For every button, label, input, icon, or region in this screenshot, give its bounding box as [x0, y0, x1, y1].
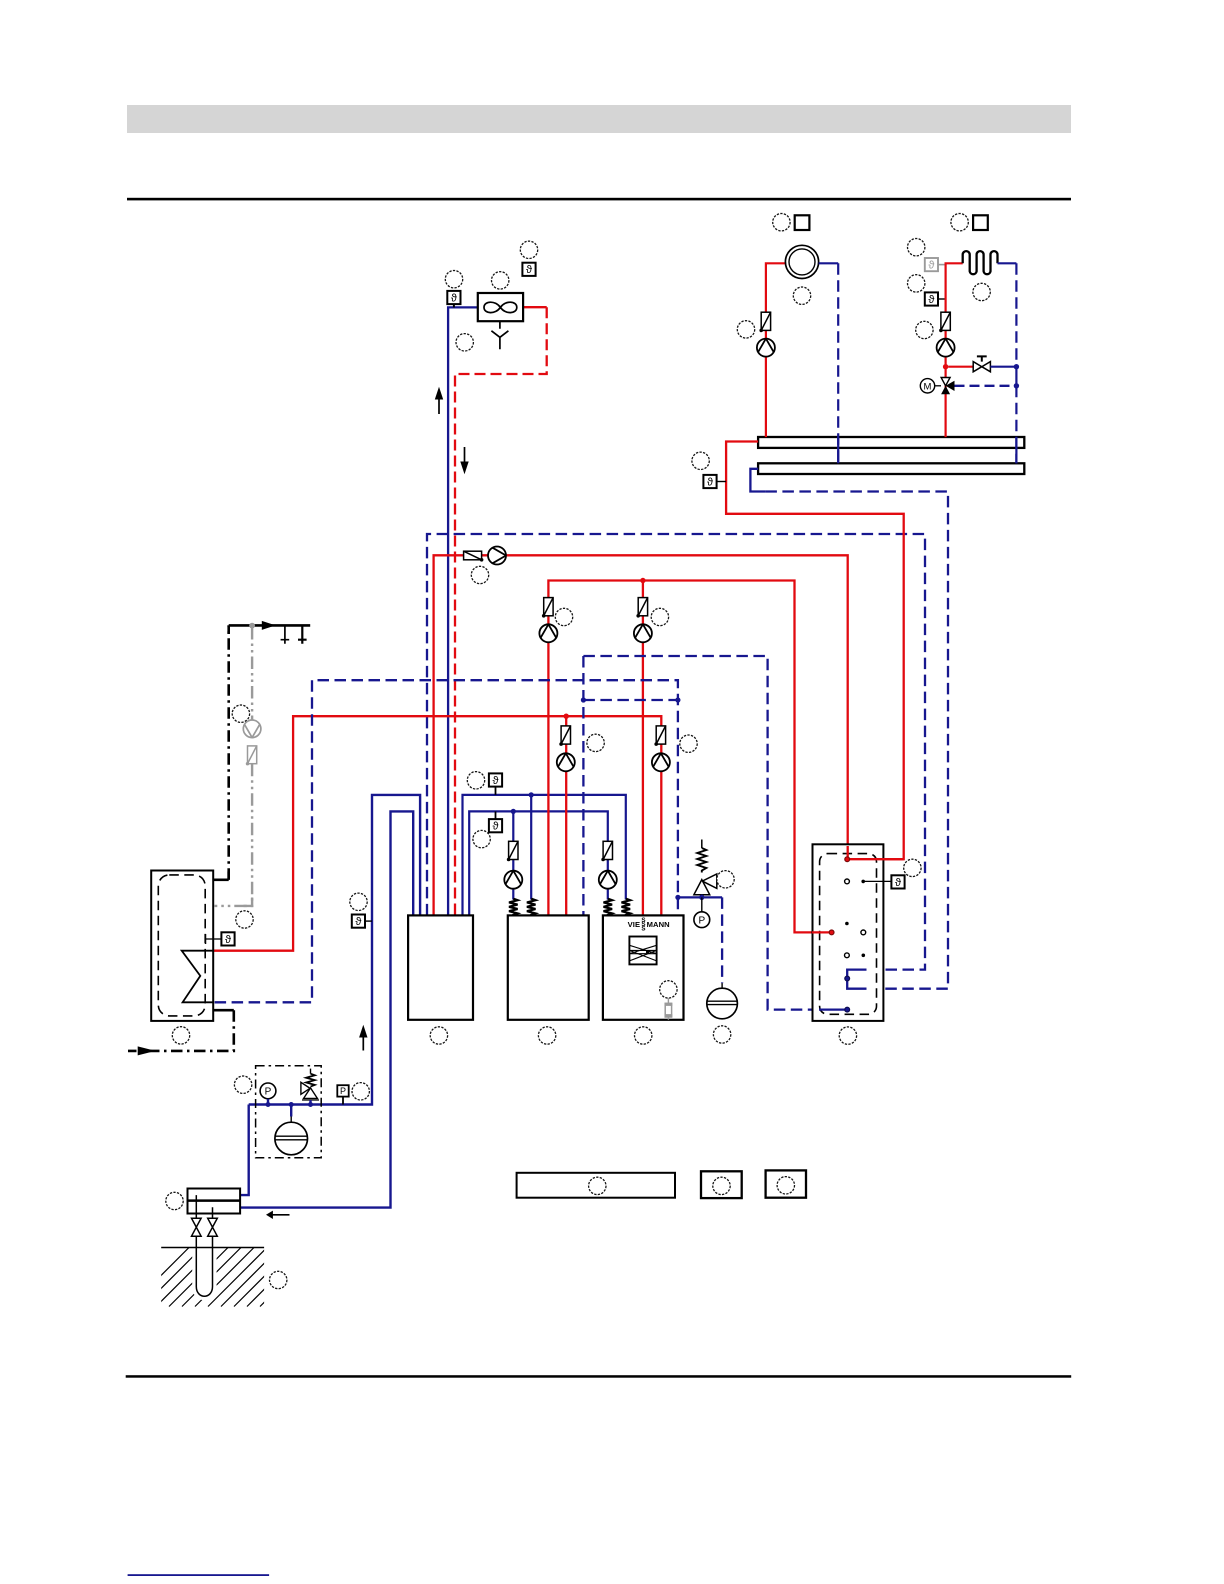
wire: hot water line from tank (black) — [213, 878, 229, 881]
label circle supply branch 2 — [555, 608, 572, 625]
label circle brine bus upper — [467, 772, 484, 789]
safety valve brine — [301, 1069, 319, 1105]
node: junction bypass circuit 2 — [943, 364, 948, 369]
motor drive mixing valve — [920, 379, 941, 393]
wire: mixing valve blue dashed stub — [955, 385, 1017, 387]
svg-text:S: S — [641, 926, 645, 933]
remote control box 1 — [701, 1171, 742, 1198]
heating circuit 2 return stub (blue) — [998, 262, 1017, 264]
wire: circulation line lower (gray) — [214, 764, 252, 906]
node: junction DHW heating supply — [564, 714, 569, 719]
label circle DHW tank — [172, 1027, 189, 1044]
wire: bypass red stub — [948, 366, 973, 368]
sensor theta brine inlet heat pump 1 — [352, 915, 372, 929]
label circle expansion vessel heating — [713, 1026, 730, 1043]
check valve circulation gray — [246, 746, 257, 766]
wire: return branch into heat pump 2 (blue dashed) — [582, 656, 584, 915]
wire: DHW heating supply branch to heat pump 2 — [565, 716, 567, 915]
heating circuit 2 floor heating coil — [963, 251, 998, 274]
electric heater fuse element heat pump 3 — [665, 998, 673, 1020]
label circle DHW branch 3 — [680, 735, 697, 752]
label circle valve circuit 1 — [737, 321, 754, 338]
gate valve bypass — [973, 356, 990, 371]
label circle left of fan — [445, 271, 462, 288]
membrane expansion vessel brine — [275, 1122, 308, 1155]
wire: hot water riser dash-dot — [227, 625, 230, 879]
port buffer top supply — [845, 857, 850, 862]
ground probe U pipe — [196, 1236, 212, 1296]
top rule — [127, 198, 1071, 201]
label circle DHW branch 2 — [587, 734, 604, 751]
wire: bypass blue stub — [990, 366, 1016, 368]
svg-text:MANN: MANN — [647, 920, 670, 929]
heating circuit 2 return dashed to manifold — [1015, 263, 1017, 463]
flexible connection spring brine heat pump 2 right — [527, 899, 536, 916]
throttle valve DHW branch heat pump 2 — [559, 726, 570, 746]
wire: DHW heating supply line to coil (red) — [214, 716, 661, 951]
DHW tank heating coil — [182, 951, 214, 1003]
membrane expansion vessel heating — [707, 983, 738, 1019]
remote control box 2 — [766, 1170, 806, 1197]
wire: buffer return port solid branches (blue) — [847, 970, 866, 989]
wire: heat pump 1 to outdoor unit cold line (blue solid) — [448, 307, 478, 915]
label circle above fan — [492, 272, 509, 289]
arrow flow up on brine supply riser — [359, 1025, 367, 1051]
port buffer sensor level — [845, 879, 850, 884]
ground manifold block — [188, 1189, 241, 1219]
node: junction safety valve brine — [308, 1102, 313, 1107]
node: junction at heat pump 3 return — [675, 895, 680, 900]
circulation pump gray — [243, 720, 261, 738]
svg-text:P: P — [340, 1086, 346, 1096]
wire: outdoor unit warm line dashed back to heat pump 1 (red dashed) — [455, 307, 547, 915]
buffer tank body — [813, 844, 884, 1021]
wire: dashed cross link between return branches — [583, 699, 678, 701]
sensor theta manifold feed — [703, 475, 726, 489]
heating circuit supply manifold bar — [758, 437, 1024, 448]
label circle heating circuit 1 — [773, 214, 790, 231]
wire: brine branch with pump to heat pump 2 — [512, 811, 514, 899]
svg-text:VIE: VIE — [628, 920, 641, 929]
check valve on heating supply — [464, 551, 484, 561]
pump heating supply to buffer — [488, 547, 506, 565]
tap outlet symbol 1 — [281, 625, 290, 643]
heating circuit 1 return dashed to manifold — [837, 263, 839, 463]
wire: outdoor unit warm line solid stub (red) — [523, 306, 547, 308]
footer blue line — [128, 1574, 270, 1576]
pump heating circuit 2 — [937, 339, 955, 357]
label circle remote control 2 — [777, 1177, 794, 1194]
svg-text:M: M — [924, 381, 932, 392]
svg-text:P: P — [698, 916, 705, 927]
label circle inside heat pump 3 — [660, 981, 677, 998]
sensor theta brine bus upper — [489, 773, 502, 795]
flexible connection spring brine heat pump 3 right — [622, 899, 631, 916]
node: blue junction bypass upper — [1014, 364, 1019, 369]
label circle expansion module — [234, 1076, 251, 1093]
sensor theta buffer tank — [861, 875, 904, 889]
bottom rule — [126, 1375, 1071, 1378]
wire: manifold return blue solid stub — [750, 469, 765, 492]
label circle safety valve heating — [717, 871, 734, 888]
ground surface hatch — [130, 1248, 319, 1307]
heating circuit return manifold bar — [758, 463, 1024, 474]
arrow brine return flow — [266, 1211, 290, 1219]
wire: brine bus lower from heat pump 1 to pumps of heat pumps 2 and 3 — [469, 811, 608, 915]
wire: heating supply heat pump 1 to buffer tank (red) — [434, 555, 848, 915]
wire: stub to brine expansion vessel — [290, 1105, 292, 1123]
pump supply branch heat pump 2 — [539, 624, 557, 642]
pump brine heat pump 2 — [504, 871, 522, 889]
tap outlet symbol 2 — [298, 625, 307, 643]
throttle valve heating circuit 1 — [759, 312, 770, 332]
node: junction safety valve stem — [699, 895, 704, 900]
node: blue junction bypass lower — [1014, 383, 1019, 388]
label circle valve circuit 2 — [916, 321, 933, 338]
label circle ground manifold — [166, 1192, 183, 1209]
three way mixing valve circuit 2 — [941, 378, 954, 395]
sensor theta square top right of fan — [522, 263, 535, 277]
label circle under coil — [973, 283, 990, 300]
port mark buffer lower right — [862, 954, 866, 958]
label circle brine bus lower — [473, 830, 490, 847]
wire: DHW coil return dashed to heat pump 3 (blue dashed) — [215, 680, 678, 1002]
pump heating circuit 1 — [757, 339, 775, 357]
wire: cold water drop dash-dot — [128, 1010, 234, 1051]
wire: heating supply branch to heat pump 3 — [642, 581, 644, 916]
heating circuit 1 supply pipe (red) — [766, 263, 786, 437]
wire: circulation line upper (gray) — [251, 627, 253, 720]
wire: brine line expansion header (blue solid) — [249, 795, 420, 1105]
label circle buffer sensor — [904, 859, 921, 876]
port buffer bottom — [845, 1007, 850, 1012]
label circle outdoor sensor — [520, 241, 537, 258]
node: junction vessel stub — [289, 1102, 294, 1107]
label circle supply branch 3 — [651, 608, 668, 625]
ground probe white mask — [192, 1248, 216, 1301]
manometer P brine — [260, 1083, 276, 1105]
wire: circuit 2 return crossing supply bar — [1015, 437, 1017, 463]
DHW tank body — [151, 871, 213, 1021]
throttle valve brine heat pump 2 — [507, 841, 518, 861]
label circle brine sensor — [350, 893, 367, 910]
wire: buffer bottom return dashed line (blue dashed) — [583, 656, 819, 1010]
port mark buffer upper mid — [845, 922, 849, 926]
node: junction heating supply — [640, 578, 645, 583]
sensor theta DHW tank — [206, 932, 235, 946]
wire: manifold feed into buffer top port (over tank) — [850, 858, 904, 860]
wire: circuit 1 return crossing supply bar — [837, 437, 839, 463]
wire: brine branch to heat pump 2 — [530, 795, 532, 900]
node: junction return branch right — [675, 697, 680, 702]
wire: buffer return to heat pump 1 (blue dashed) — [427, 534, 925, 970]
label circle circulation pump — [232, 705, 249, 722]
label circle buffer tank — [839, 1027, 856, 1044]
throttle valve brine heat pump 3 — [601, 841, 612, 861]
throttle valve DHW branch heat pump 3 — [654, 726, 665, 746]
wire: supply into buffer mid port (over tank) — [812, 931, 829, 933]
label circle heat pump 1 — [430, 1027, 447, 1044]
label circle below radiator — [793, 287, 810, 304]
arrow hot water flow — [262, 621, 276, 630]
pump DHW branch heat pump 3 — [652, 753, 670, 771]
label circle pump supply — [471, 566, 488, 583]
wire: manifold feed red from bar to buffer tank top — [726, 442, 904, 860]
label circle circuit 2 middle — [908, 275, 925, 292]
label circle heat pump 3 — [635, 1027, 652, 1044]
port mark buffer lower — [845, 953, 850, 958]
controller console long box — [517, 1173, 675, 1198]
heating circuit 1 return stub (blue) — [819, 262, 839, 264]
node: junction brine bus lower — [511, 809, 516, 814]
wire: manifold return dashed to buffer tank mid port — [765, 492, 948, 989]
heat pump 2 cabinet — [508, 915, 589, 1019]
throttle valve supply branch heat pump 3 — [636, 598, 647, 618]
label circle heating circuit 2 — [951, 214, 968, 231]
sensor theta gray flow temperature circuit 2 — [925, 258, 945, 272]
label circle below left of fan — [456, 334, 473, 351]
label circle circuit 2 upper — [908, 239, 925, 256]
flexible connection spring brine heat pump 3 left — [604, 899, 613, 916]
outdoor unit fan box — [478, 293, 523, 321]
manometer P heating circuit — [694, 897, 710, 927]
pump brine heat pump 3 — [599, 871, 617, 889]
flexible connection spring brine heat pump 2 left — [509, 899, 518, 916]
throttle valve heating circuit 2 — [939, 312, 950, 332]
label circle pressure switch — [352, 1083, 369, 1100]
wire: brine bus upper from heat pump 1 to heat pumps 2 and 3 — [463, 795, 626, 916]
label circle remote control 1 — [713, 1177, 730, 1194]
square label heating circuit 2 — [973, 215, 988, 230]
port buffer return — [845, 976, 850, 981]
wire: brine supply pipe from ground manifold to heat pump 1 (blue solid) — [240, 1105, 249, 1196]
label circle manifold feed sensor — [692, 452, 709, 469]
wire: cold water connection at tank bottom (black) — [214, 1009, 234, 1012]
node: junction brine bus upper — [529, 792, 534, 797]
pump DHW branch heat pump 2 — [557, 753, 575, 771]
node: junction manometer — [266, 1102, 271, 1107]
label circle DHW sensor — [236, 911, 253, 928]
label circle heat pump 2 — [538, 1027, 555, 1044]
wire: brine return pipe to ground manifold (blue solid) — [240, 811, 413, 1207]
sensor theta flow temperature circuit 2 — [925, 292, 945, 306]
node: circulation tee on hot water line — [249, 623, 255, 629]
arrow cold water inlet — [138, 1046, 156, 1055]
wire: hot water top line to taps — [229, 624, 311, 627]
heating circuit 2 return solid between junctions — [1015, 367, 1017, 386]
pressure switch P square — [337, 1085, 348, 1104]
port buffer supply mid — [829, 930, 834, 935]
svg-text:P: P — [265, 1087, 272, 1098]
label circle ground probe — [270, 1271, 287, 1288]
heating circuit 2 supply pipe (red) — [946, 263, 963, 437]
shutoff valve probe pipe 2 — [208, 1218, 218, 1236]
heat pump 1 cabinet — [408, 915, 473, 1019]
wire: safety group connection line heating (blue) — [678, 896, 722, 898]
heating circuit 1 radiator symbol — [785, 245, 818, 278]
wire: dashed drop to heating expansion vessel — [721, 897, 723, 983]
port mark buffer mid right — [861, 930, 866, 935]
outdoor unit antenna symbol — [491, 321, 508, 349]
arrow flow up on cold line — [435, 387, 443, 414]
sensor theta outdoor temperature — [447, 291, 460, 308]
expansion module boundary dash-dot box — [256, 1066, 322, 1158]
arrow flow down on warm line — [460, 447, 468, 474]
heat pump 3 cabinet with Viessmann logo — [603, 915, 684, 1019]
shutoff valve probe pipe 1 — [192, 1218, 202, 1236]
square label heating circuit 1 — [795, 215, 810, 230]
throttle valve supply branch heat pump 2 — [542, 598, 553, 618]
ground surface line — [161, 1247, 264, 1249]
pump supply branch heat pump 3 — [634, 624, 652, 642]
wire: heating supply distribution line upper (red) — [548, 581, 829, 933]
node: junction return branch left — [581, 697, 586, 702]
header gray bar — [127, 105, 1071, 133]
wire: buffer bottom port solid stub (blue) — [819, 1008, 847, 1010]
label circle controller console — [589, 1177, 606, 1194]
wire: red feed into buffer top port (over tank) — [847, 846, 849, 859]
sensor theta brine bus lower — [489, 811, 502, 832]
safety valve heating circuit — [694, 840, 717, 898]
